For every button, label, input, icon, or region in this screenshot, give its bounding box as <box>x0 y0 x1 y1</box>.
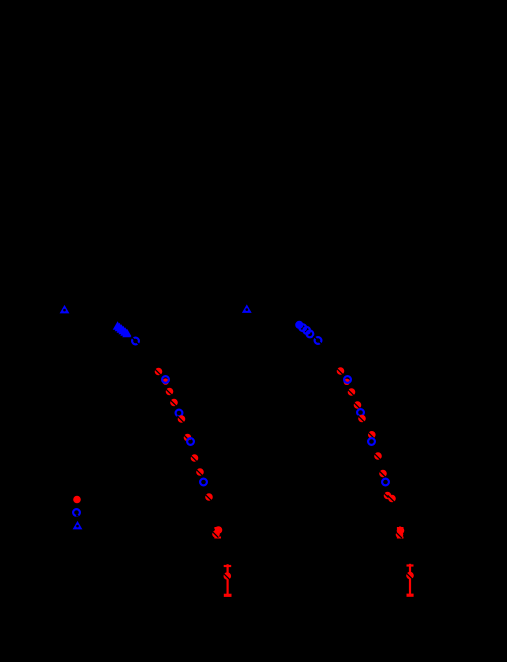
red dot R-1 <box>336 367 344 375</box>
blue triangle streak L-B6 <box>122 329 132 338</box>
red dot R-4 <box>353 401 361 409</box>
blue ring L-2 <box>162 376 169 383</box>
legend blue triangle <box>73 521 83 530</box>
blue ring streak R-B1 <box>299 324 306 331</box>
red dot R-7 <box>367 431 375 439</box>
blue ring L-11 <box>200 479 207 486</box>
blue ring R-5 <box>357 409 364 416</box>
red cluster marker L upper <box>215 526 223 534</box>
red dot L-1 <box>154 368 162 376</box>
blue ring streak R-B3 <box>307 331 314 338</box>
blue ring L-C with slash <box>131 337 140 346</box>
red errorbar marker R <box>406 572 414 580</box>
red dot L-6 <box>177 415 185 423</box>
red dot L-7 <box>183 434 191 442</box>
red dot L-3 <box>165 388 173 396</box>
red cluster marker R upper <box>397 527 405 535</box>
red errorbar R <box>407 564 414 596</box>
blue ring R-11 <box>382 479 389 486</box>
red dot L-4 <box>170 399 178 407</box>
red cluster marker R lower <box>395 531 403 539</box>
red dot L-9 <box>190 454 198 462</box>
red cluster marker L lower <box>212 530 220 538</box>
red dot R-2b <box>344 379 350 385</box>
blue triangle streak L-B5 <box>120 327 130 336</box>
blue ring streak R-B2 <box>303 327 310 334</box>
red dot R-9 <box>374 452 382 460</box>
red dot R-12a <box>383 492 391 500</box>
blue triangle streak L-B4 <box>118 326 128 335</box>
blue triangle point L-A <box>60 305 70 314</box>
blue triangle point R-A <box>242 304 252 313</box>
red dot L-10 <box>196 468 204 476</box>
red dot L-2b <box>162 378 168 384</box>
red small errorbar cluster R <box>397 527 404 539</box>
blue streak cap R-B0 <box>295 321 303 329</box>
blue triangle streak L-B1 <box>113 321 123 330</box>
legend red circle <box>73 496 81 504</box>
blue ring L-5 <box>176 410 183 417</box>
red small errorbar cluster L <box>214 527 221 539</box>
blue ring R-C with slash <box>314 336 323 345</box>
red dot R-12b <box>388 495 396 503</box>
blue triangle streak L-B2 <box>115 323 125 332</box>
red errorbar marker L <box>223 572 231 580</box>
blue ring R-8 <box>368 438 375 445</box>
legend blue ring <box>73 509 80 516</box>
red dot L-12 <box>205 493 213 501</box>
blue triangle streak L-B3 <box>117 324 127 333</box>
red dot R-10 <box>379 470 387 478</box>
blue ring R-2 <box>344 376 351 383</box>
red dot R-3 <box>347 388 355 396</box>
blue ring L-8 <box>187 438 194 445</box>
red dot R-6 <box>358 415 366 423</box>
red errorbar L <box>224 564 232 595</box>
